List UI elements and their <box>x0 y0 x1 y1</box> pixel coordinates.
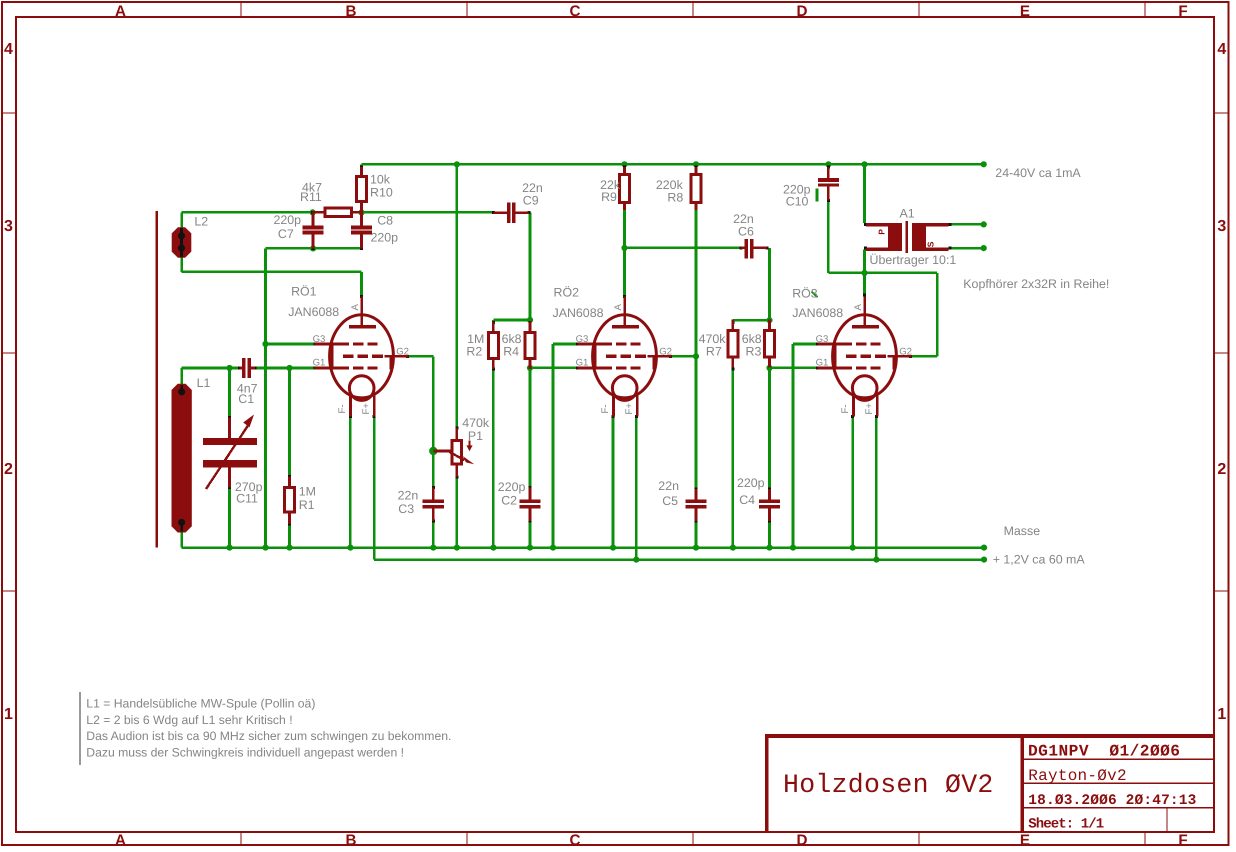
pin tick R3 top <box>768 321 771 324</box>
wire net C7/C8 bottom <box>266 247 362 250</box>
capacitor C8 <box>351 212 372 248</box>
wire RO3 G2 riser <box>936 273 939 356</box>
title block thick top bar <box>765 734 1214 738</box>
junction B+/R8 <box>693 161 699 167</box>
wire C6 right drop <box>768 248 771 321</box>
junction Masse x769 <box>766 545 772 551</box>
junction R3/G1/C4 <box>766 365 772 371</box>
node B+ end <box>981 161 987 167</box>
pin tick R9 bottom <box>623 207 626 210</box>
pin tick C4 bottom <box>768 519 771 522</box>
svg-text:220p: 220p <box>371 231 399 245</box>
wire L2 bottom to anode net <box>180 258 183 272</box>
wire C11 bottom to Masse <box>228 488 231 548</box>
svg-text:G3: G3 <box>576 334 589 345</box>
wire L1/C1 left <box>182 367 239 370</box>
wire RO3 G3 vertical <box>792 344 795 548</box>
wire R1 bottom to Masse <box>288 524 291 548</box>
wire R8 bottom through G2 to C5 <box>695 209 698 488</box>
svg-text:G1: G1 <box>816 358 829 369</box>
pin tick C2 bottom <box>529 519 532 522</box>
pin tick P1 bottom <box>455 475 458 478</box>
wire C4 bottom to Masse <box>768 521 771 548</box>
junction Masse x289 <box>286 545 292 551</box>
pin tick C9 left <box>492 211 495 214</box>
wire stray green tick near C10 <box>816 189 819 202</box>
wire R7/R3 top <box>733 319 770 322</box>
svg-text:F-: F- <box>840 404 851 413</box>
notes divider bar <box>79 692 81 765</box>
wire A1 secondary bottom <box>951 247 984 250</box>
svg-text:A: A <box>115 832 126 849</box>
junction C9/R4 top <box>527 317 533 323</box>
capacitor C1 <box>239 358 255 378</box>
svg-text:G2: G2 <box>899 347 912 358</box>
pin tick RO3 G2 <box>909 355 912 358</box>
svg-text:1: 1 <box>4 706 13 723</box>
antenna bus bar <box>155 211 158 548</box>
svg-text:R4: R4 <box>503 345 519 359</box>
pin tick RO1 F+ <box>373 415 376 418</box>
junction Masse x732 <box>730 545 736 551</box>
svg-text:R7: R7 <box>706 345 722 359</box>
svg-text:G3: G3 <box>313 334 326 345</box>
junction G1/R1 <box>286 365 292 371</box>
variable capacitor C11 <box>203 415 257 490</box>
svg-text:S: S <box>926 241 936 247</box>
svg-text:4: 4 <box>4 41 13 58</box>
svg-text:RÖ2: RÖ2 <box>554 286 580 300</box>
junction Masse x456 <box>454 545 460 551</box>
junction +1.2V x636 <box>633 557 639 563</box>
resistor R2 <box>488 321 498 369</box>
pin tick C3 top <box>432 486 435 489</box>
svg-text:22n: 22n <box>398 488 419 502</box>
svg-text:G1: G1 <box>576 358 589 369</box>
svg-text:C: C <box>570 832 581 849</box>
wire R9 bottom to anode2 <box>623 209 626 296</box>
junction Masse x350 <box>347 545 353 551</box>
junction Masse x530 <box>527 545 533 551</box>
junction Masse x229 <box>226 545 232 551</box>
svg-text:F: F <box>1178 832 1187 849</box>
svg-text:Das Audion ist bis ca 90 MHz s: Das Audion ist bis ca 90 MHz sicher zum … <box>86 729 451 743</box>
pin tick R10 bottom junction <box>360 211 363 214</box>
wire C5 bottom to Masse <box>695 521 698 548</box>
wire C10/A1/anode3 junction <box>828 272 937 275</box>
pin tick C8 bottom end <box>360 247 363 250</box>
wire R2 bottom to Masse <box>492 370 495 548</box>
svg-text:JAN6088: JAN6088 <box>792 306 843 320</box>
junction +1.2V x876 <box>873 557 879 563</box>
pin tick R4 top <box>529 321 532 324</box>
wire R7 bottom to Masse <box>732 370 735 548</box>
junction R11/C7 <box>310 209 316 215</box>
pin tick C3 bottom <box>432 519 435 522</box>
svg-text:RÖ3: RÖ3 <box>792 286 818 300</box>
svg-text:C9: C9 <box>523 194 539 208</box>
title block row dividers <box>1024 758 1213 760</box>
svg-text:2: 2 <box>4 461 13 478</box>
pin tick RO2 anode <box>623 295 626 298</box>
wire R8 top stub <box>695 164 698 168</box>
pin tick A1 primary top <box>864 223 867 226</box>
pin tick R1 bottom <box>288 522 291 525</box>
wire B+ rail 24-40V <box>362 163 984 166</box>
wire RO2 F- drop <box>612 417 615 548</box>
pin tick C6 left <box>739 246 742 249</box>
pin tick R8 bottom <box>695 207 698 210</box>
svg-text:DG1NPV Ø1/2ØØ6: DG1NPV Ø1/2ØØ6 <box>1028 743 1180 761</box>
pin tick C5 bottom <box>695 519 698 522</box>
wire RO3 F- drop <box>851 417 854 548</box>
svg-text:24-40V ca 1mA: 24-40V ca 1mA <box>995 166 1081 180</box>
wire C11 top vertical <box>228 368 231 418</box>
junction Masse x265 <box>262 545 268 551</box>
pin tick R4 bottom <box>529 365 532 368</box>
pin tick A1 primary bottom <box>864 247 867 250</box>
wire net L2top/R11/R10/C8/C9 left segment <box>182 211 313 214</box>
svg-text:C6: C6 <box>738 225 754 239</box>
pin tick C2 top <box>529 486 532 489</box>
svg-text:G1: G1 <box>313 358 326 369</box>
tube RO1 JAN6088 <box>315 297 409 417</box>
pin tick RO1 G3 <box>313 343 316 346</box>
pin tick C10 bottom <box>827 199 830 202</box>
pin tick C5 top <box>695 488 698 491</box>
capacitor C2 <box>519 488 540 521</box>
svg-text:3: 3 <box>1217 218 1226 235</box>
wire B+ to P1 top <box>456 164 459 426</box>
capacitor C5 <box>685 489 706 521</box>
wire RO2 G3 vertical <box>552 344 555 548</box>
svg-text:22n: 22n <box>658 479 679 493</box>
inductor L1 <box>172 384 192 533</box>
wire RO2 F+ drop <box>635 417 638 560</box>
pin tick C6 right <box>766 246 769 249</box>
wire R2/R4 top <box>493 319 530 322</box>
junction R4/G1/C2 <box>527 365 533 371</box>
svg-text:1: 1 <box>1217 706 1226 723</box>
pin tick RO3 G3 <box>816 343 819 346</box>
svg-text:A: A <box>613 304 624 311</box>
pin tick RO1 G2 <box>406 355 409 358</box>
junction Masse x852 <box>850 545 856 551</box>
svg-text:P: P <box>877 229 887 235</box>
svg-text:A: A <box>853 304 864 311</box>
svg-text:F-: F- <box>600 404 611 413</box>
resistor R11 <box>313 208 362 216</box>
svg-text:2: 2 <box>1217 461 1226 478</box>
wire C3 bottom to Masse <box>432 521 435 548</box>
pin tick R10 top <box>360 166 363 169</box>
svg-text:C: C <box>570 3 581 20</box>
svg-text:L2 = 2 bis 6 Wdg auf L1 sehr K: L2 = 2 bis 6 Wdg auf L1 sehr Kritisch ! <box>86 713 292 727</box>
svg-text:C3: C3 <box>398 502 414 516</box>
svg-text:C10: C10 <box>786 194 809 208</box>
node A1 sec bottom end <box>981 245 987 251</box>
svg-text:P1: P1 <box>468 429 483 443</box>
svg-text:R3: R3 <box>746 345 762 359</box>
wire R3 bottom junction to C4 <box>768 368 771 488</box>
svg-text:G2: G2 <box>396 347 409 358</box>
svg-text:E: E <box>1020 832 1030 849</box>
wire Masse rail <box>182 546 984 549</box>
svg-text:3: 3 <box>4 218 13 235</box>
pin tick C11 top <box>228 416 231 419</box>
svg-text:10k: 10k <box>370 173 391 187</box>
wire RO2 G2 to R8 <box>671 355 696 358</box>
capacitor C10 <box>818 167 839 201</box>
resistor R8 <box>691 167 701 210</box>
wire RO3 F+ drop <box>875 417 878 560</box>
junction C1/C11 <box>226 365 232 371</box>
svg-text:A: A <box>115 3 126 20</box>
node A1 sec top end <box>981 221 987 227</box>
svg-text:F: F <box>1178 3 1187 20</box>
junction B+/R9 <box>621 161 627 167</box>
svg-text:B: B <box>346 832 357 849</box>
wire R2 top stub <box>492 320 495 322</box>
pin tick R1 top <box>288 475 291 478</box>
svg-text:C2: C2 <box>501 493 517 507</box>
wire R10 top stub <box>360 164 363 168</box>
svg-text:G2: G2 <box>659 347 672 358</box>
svg-text:A: A <box>350 304 361 311</box>
junction Masse x553 <box>550 545 556 551</box>
svg-text:470k: 470k <box>462 416 490 430</box>
svg-text:C8: C8 <box>377 213 393 227</box>
wire RO3 G3 <box>793 343 817 346</box>
svg-text:G3: G3 <box>816 334 829 345</box>
junction R8/RO2 G2 <box>693 353 699 359</box>
tube RO3 JAN6088 <box>818 297 912 417</box>
junction anode2/C6 <box>621 245 627 251</box>
junction C10/A1/anode3 <box>861 270 867 276</box>
pin tick C9 right <box>527 211 530 214</box>
node +1.2V end <box>981 557 987 563</box>
svg-text:L1 = Handelsübliche MW-Spule (: L1 = Handelsübliche MW-Spule (Pollin oä) <box>86 697 315 711</box>
svg-text:F-: F- <box>337 404 348 413</box>
wire RO1 G2 <box>408 355 433 358</box>
pin tick R9 top <box>623 166 626 169</box>
junction Masse x613 <box>610 545 616 551</box>
pin tick C1 right <box>254 367 257 370</box>
wire RO1 G3 <box>266 343 315 346</box>
pin tick R7 bottom <box>731 368 734 371</box>
junction C6/R3 top <box>766 317 772 323</box>
svg-text:C7: C7 <box>278 227 294 241</box>
wire RO2 G1 <box>530 367 577 370</box>
pin tick R8 top <box>695 166 698 169</box>
wire C9 right drop to R4 <box>529 213 532 321</box>
pin tick C1 left <box>238 367 241 370</box>
svg-text:Holzdosen ØV2: Holzdosen ØV2 <box>783 770 994 800</box>
pin tick RO2 G2 <box>669 355 672 358</box>
junction R10/C8/R11 <box>358 209 364 215</box>
svg-text:F+: F+ <box>864 403 875 415</box>
svg-text:R8: R8 <box>667 191 683 205</box>
inductor L2 <box>172 227 192 258</box>
svg-text:Rayton-Øv2: Rayton-Øv2 <box>1028 767 1127 785</box>
pin tick C4 top <box>768 488 771 491</box>
svg-text:18.Ø3.2ØØ6 2Ø:47:13: 18.Ø3.2ØØ6 2Ø:47:13 <box>1028 793 1196 809</box>
svg-text:F+: F+ <box>624 403 635 415</box>
pin tick R2 top <box>492 321 495 324</box>
pin tick A1 secondary top <box>948 223 951 226</box>
pin tick R2 bottom <box>492 368 495 371</box>
node Masse end <box>981 545 987 551</box>
wire RO1 G2 to C3 vertical <box>432 356 435 487</box>
pin tick RO2 G1 <box>576 367 579 370</box>
wire C1 to RO1 G1 <box>256 367 315 370</box>
svg-text:E: E <box>1020 3 1030 20</box>
resistor R10 <box>357 167 367 212</box>
tube RO2 JAN6088 <box>578 297 672 417</box>
capacitor C6 <box>741 239 767 259</box>
junction B+/P1 <box>454 161 460 167</box>
resistor R3 <box>765 320 775 368</box>
svg-text:Masse: Masse <box>1004 524 1041 538</box>
wire C10 top stub <box>827 164 830 167</box>
svg-text:220p: 220p <box>737 476 765 490</box>
pin tick RO1 G1 <box>313 367 316 370</box>
wire L2 top drop <box>180 212 183 227</box>
svg-text:C4: C4 <box>739 493 755 507</box>
svg-text:JAN6088: JAN6088 <box>553 306 604 320</box>
svg-text:L2: L2 <box>194 214 208 228</box>
resistor R1 <box>285 477 295 524</box>
junction Masse x793 <box>790 545 796 551</box>
wire RO1 F+ drop to +1.2V <box>373 417 376 560</box>
junction B+/C10 <box>825 161 831 167</box>
wire L1 top stub <box>180 368 183 385</box>
svg-text:RÖ1: RÖ1 <box>291 285 317 299</box>
svg-text:R2: R2 <box>466 345 482 359</box>
svg-text:220p: 220p <box>498 480 526 494</box>
wire R4 bottom junction to C2 <box>529 368 532 488</box>
junction G3 net/RO1 G3 <box>262 341 268 347</box>
svg-text:Dazu muss der Schwingkreis ind: Dazu muss der Schwingkreis individuell a… <box>86 746 404 760</box>
svg-text:L1: L1 <box>197 376 211 390</box>
wire C10 bottom drop <box>827 201 830 273</box>
pin tick A1 secondary bottom <box>948 247 951 250</box>
wire A1 primary bottom to junction <box>863 250 866 273</box>
capacitor C4 <box>759 489 780 521</box>
wire L1 bottom stub <box>180 531 183 548</box>
capacitor C3 <box>423 488 444 521</box>
wire RO3 G2 <box>911 355 937 358</box>
svg-text:D: D <box>797 832 808 849</box>
capacitor C9 <box>493 203 529 223</box>
svg-text:Sheet: 1/1: Sheet: 1/1 <box>1028 816 1104 832</box>
wire stray green mark near RO3 <box>812 292 818 298</box>
pin tick RO3 G1 <box>816 367 819 370</box>
svg-text:+ 1,2V ca 60 mA: + 1,2V ca 60 mA <box>993 552 1086 566</box>
wire G3 net vertical x265 <box>264 248 267 547</box>
pin tick RO1 F- <box>349 415 352 418</box>
wire R9 top stub <box>623 164 626 168</box>
junction B+/A1 <box>861 161 867 167</box>
pin tick RO2 G3 <box>576 343 579 346</box>
wire C2 bottom to Masse <box>529 521 532 548</box>
potentiometer P1 <box>433 428 474 477</box>
title block thick middle bar <box>1020 737 1024 832</box>
pin tick C11 bottom <box>228 486 231 489</box>
wire anode3 drop <box>863 273 866 295</box>
wire P1 bottom to Masse <box>456 478 459 548</box>
svg-text:1M: 1M <box>299 485 316 499</box>
pin tick RO3 F+ <box>875 415 878 418</box>
pin tick RO3 F- <box>851 415 854 418</box>
pin tick RO1 anode <box>360 295 363 298</box>
pin tick RO2 F- <box>612 415 615 418</box>
resistor R9 <box>620 167 630 210</box>
svg-text:C11: C11 <box>236 492 258 506</box>
wire net R10 bottom to C9 <box>362 211 493 214</box>
wire RO3 G1 <box>770 367 818 370</box>
junction Masse x696 <box>693 545 699 551</box>
junction Masse x493 <box>490 545 496 551</box>
wire RO1 anode net horizontal <box>182 271 362 274</box>
pin tick R3 bottom <box>768 365 771 368</box>
svg-text:R11: R11 <box>300 190 322 204</box>
svg-text:4: 4 <box>1217 41 1226 58</box>
pin tick P1 top <box>455 426 458 429</box>
capacitor C7 <box>303 212 324 248</box>
wire R1 top vertical <box>288 368 291 476</box>
svg-text:R10: R10 <box>370 186 393 200</box>
wire A1 secondary top <box>951 223 984 226</box>
svg-text:Kopfhörer 2x32R in Reihe!: Kopfhörer 2x32R in Reihe! <box>963 277 1109 291</box>
frame tick dividers <box>240 2 242 17</box>
wire RO2 G3 <box>553 343 577 346</box>
junction Masse x433 <box>430 545 436 551</box>
pin tick R11 left <box>311 211 314 214</box>
svg-text:C1: C1 <box>238 392 254 406</box>
svg-text:JAN6088: JAN6088 <box>288 305 339 319</box>
pin tick RO2 F+ <box>635 415 638 418</box>
svg-text:A1: A1 <box>900 206 915 220</box>
svg-text:C5: C5 <box>662 494 678 508</box>
pin tick R7 top <box>731 321 734 324</box>
resistor R7 <box>728 320 738 368</box>
svg-text:F+: F+ <box>361 403 372 415</box>
title block thick left bar <box>765 734 769 831</box>
junction P1 wiper <box>429 447 437 455</box>
svg-text:Übertrager 10:1: Übertrager 10:1 <box>870 253 957 267</box>
svg-text:B: B <box>346 3 357 20</box>
wire RO2 anode to C6 <box>625 247 742 250</box>
resistor R4 <box>525 321 535 369</box>
svg-text:220p: 220p <box>274 213 302 227</box>
wire anode1 drop <box>360 272 363 296</box>
pin tick C7 bottom <box>312 247 315 250</box>
svg-text:R1: R1 <box>299 498 315 512</box>
svg-text:R9: R9 <box>601 190 617 204</box>
pin tick C10 top <box>827 165 830 168</box>
transformer A1 <box>866 221 949 253</box>
pin tick RO3 anode <box>863 294 866 297</box>
junction C7 bottom <box>310 245 316 251</box>
wire RO1 F- drop <box>349 417 352 548</box>
wire B+ to A1 primary <box>863 164 866 223</box>
svg-text:D: D <box>797 3 808 20</box>
wire +1.2V rail <box>374 558 984 561</box>
